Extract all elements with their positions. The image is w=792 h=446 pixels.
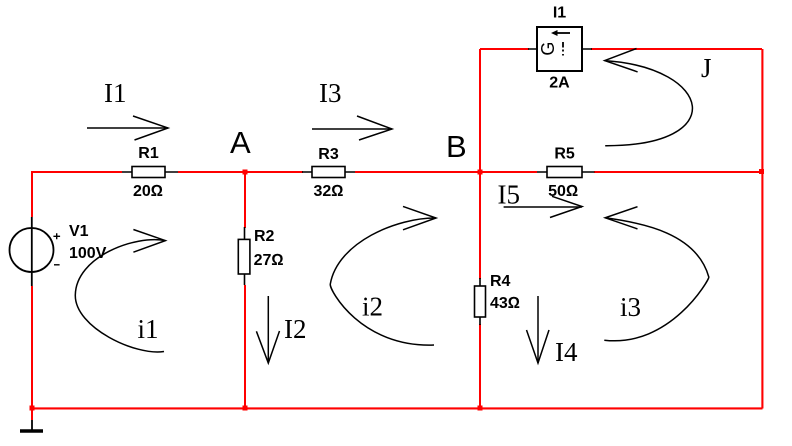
node A junction dot bbox=[243, 170, 248, 175]
i2 mesh arc bbox=[330, 218, 436, 345]
wire bottom bus bbox=[32, 407, 763, 409]
wire node A vertical upper (A to R2) bbox=[244, 172, 246, 228]
bottom node A junction dot bbox=[243, 406, 248, 411]
svg-text:R3: R3 bbox=[318, 146, 339, 163]
R1 body bbox=[132, 167, 165, 178]
svg-text:R2: R2 bbox=[254, 228, 275, 245]
svg-text:2A: 2A bbox=[549, 75, 570, 92]
svg-text:J: J bbox=[701, 53, 712, 83]
R3 leads bbox=[302, 171, 355, 173]
svg-text:V1: V1 bbox=[69, 223, 89, 240]
svg-text:I3: I3 bbox=[319, 78, 342, 108]
resistor R4 bbox=[475, 273, 521, 325]
right bus junction dot bbox=[759, 169, 764, 174]
I1 arrow shaft bbox=[87, 127, 168, 129]
R5 leads bbox=[537, 171, 595, 173]
bottom node B junction dot bbox=[478, 406, 483, 411]
wire top bus segment 1 bbox=[31, 171, 122, 173]
R1 leads bbox=[122, 171, 178, 173]
I5 arrow head bbox=[550, 196, 582, 217]
resistor R1 bbox=[122, 145, 178, 200]
svg-text:i2: i2 bbox=[362, 292, 383, 322]
ground bbox=[20, 420, 43, 431]
ground bar bbox=[20, 429, 43, 433]
ground stem bbox=[31, 420, 33, 431]
I1 source dashed bar bbox=[562, 42, 564, 56]
mesh current i1 bbox=[75, 230, 165, 352]
current arrow I2 bbox=[256, 296, 306, 363]
svg-text:I4: I4 bbox=[555, 337, 578, 367]
wire right vertical bbox=[761, 49, 763, 409]
current arrow I5 bbox=[498, 180, 583, 218]
wire left vertical lower (V1 to bottom) bbox=[31, 286, 33, 420]
wire left vertical upper (to V1) bbox=[31, 171, 33, 217]
wire node B vertical upper (top to R4) bbox=[479, 49, 481, 279]
i3 mesh arc bbox=[604, 218, 709, 341]
I2 arrow shaft bbox=[267, 296, 269, 363]
mesh current i3 bbox=[604, 207, 709, 341]
mesh current i2 bbox=[330, 206, 436, 345]
svg-text:27Ω: 27Ω bbox=[254, 252, 284, 269]
I4 arrow head bbox=[527, 330, 550, 363]
I1 arrow head bbox=[133, 116, 168, 140]
svg-text:i3: i3 bbox=[620, 292, 641, 322]
wire top bus segment 2 (R1 to R3) bbox=[178, 171, 303, 173]
resistor R5 bbox=[537, 146, 595, 201]
wire top-right bus left of source bbox=[480, 48, 529, 50]
svg-text:32Ω: 32Ω bbox=[313, 183, 343, 200]
svg-text:R4: R4 bbox=[490, 273, 511, 290]
wire top-right bus right of source bbox=[591, 48, 762, 50]
bottom-left junction dot bbox=[30, 406, 35, 411]
J mesh arc bbox=[605, 61, 693, 146]
svg-text:I5: I5 bbox=[498, 180, 521, 210]
wire top bus segment 4 (R5 to right) bbox=[594, 171, 763, 173]
I4 arrow shaft bbox=[537, 296, 539, 363]
R4 leads bbox=[479, 278, 481, 325]
i2 arrow head bbox=[403, 206, 436, 229]
svg-text:R5: R5 bbox=[554, 146, 575, 163]
wire node B vertical lower (R4 to bottom) bbox=[479, 324, 481, 408]
current arrow I4 bbox=[527, 296, 578, 367]
svg-text:A: A bbox=[230, 125, 251, 160]
I1 source direction arrow shaft bbox=[556, 32, 570, 34]
svg-text:i1: i1 bbox=[138, 314, 159, 344]
R2 leads bbox=[244, 227, 246, 285]
resistor R3 bbox=[302, 146, 355, 200]
svg-text:20Ω: 20Ω bbox=[133, 183, 163, 200]
V1 circle body bbox=[10, 228, 54, 272]
I3 arrow shaft bbox=[312, 128, 392, 130]
I1 source leads bbox=[528, 48, 592, 50]
I2 arrow head bbox=[256, 331, 279, 363]
R5 body bbox=[547, 167, 582, 178]
svg-text:I2: I2 bbox=[284, 314, 307, 344]
wire node A vertical lower (R2 to bottom) bbox=[244, 285, 246, 408]
svg-text:100V: 100V bbox=[69, 245, 107, 262]
I3 arrow head bbox=[357, 116, 392, 140]
current arrow I3 bbox=[312, 78, 392, 140]
svg-text:G: G bbox=[538, 42, 558, 56]
svg-text:R1: R1 bbox=[138, 145, 159, 162]
I1 source box body bbox=[537, 27, 582, 71]
svg-text:I1: I1 bbox=[104, 78, 127, 108]
i1 arrow head bbox=[133, 230, 165, 253]
node B junction dot bbox=[478, 170, 483, 175]
i3 arrow head bbox=[605, 207, 637, 229]
current arrow I1 bbox=[87, 78, 168, 140]
resistor R2 bbox=[238, 227, 283, 285]
svg-text:43Ω: 43Ω bbox=[490, 295, 520, 312]
svg-text:B: B bbox=[446, 129, 467, 164]
voltage source V1 bbox=[10, 217, 107, 286]
I5 arrow shaft bbox=[504, 206, 582, 208]
I1 source direction arrow head bbox=[551, 30, 558, 36]
R2 body bbox=[238, 239, 250, 274]
current source I1 bbox=[528, 5, 592, 92]
wire top bus segment 3 (R3 to R5) bbox=[355, 171, 537, 173]
svg-text:I1: I1 bbox=[553, 5, 566, 22]
mesh current J bbox=[605, 49, 712, 146]
V1 plus polarity mark bbox=[53, 233, 60, 239]
svg-text:50Ω: 50Ω bbox=[548, 183, 578, 200]
V1 minus polarity mark bbox=[54, 264, 60, 266]
i1 mesh arc bbox=[75, 240, 165, 352]
R4 body bbox=[475, 286, 486, 317]
R3 body bbox=[312, 167, 345, 178]
J arrow head bbox=[605, 49, 638, 72]
V1 lead through body bbox=[31, 217, 33, 286]
